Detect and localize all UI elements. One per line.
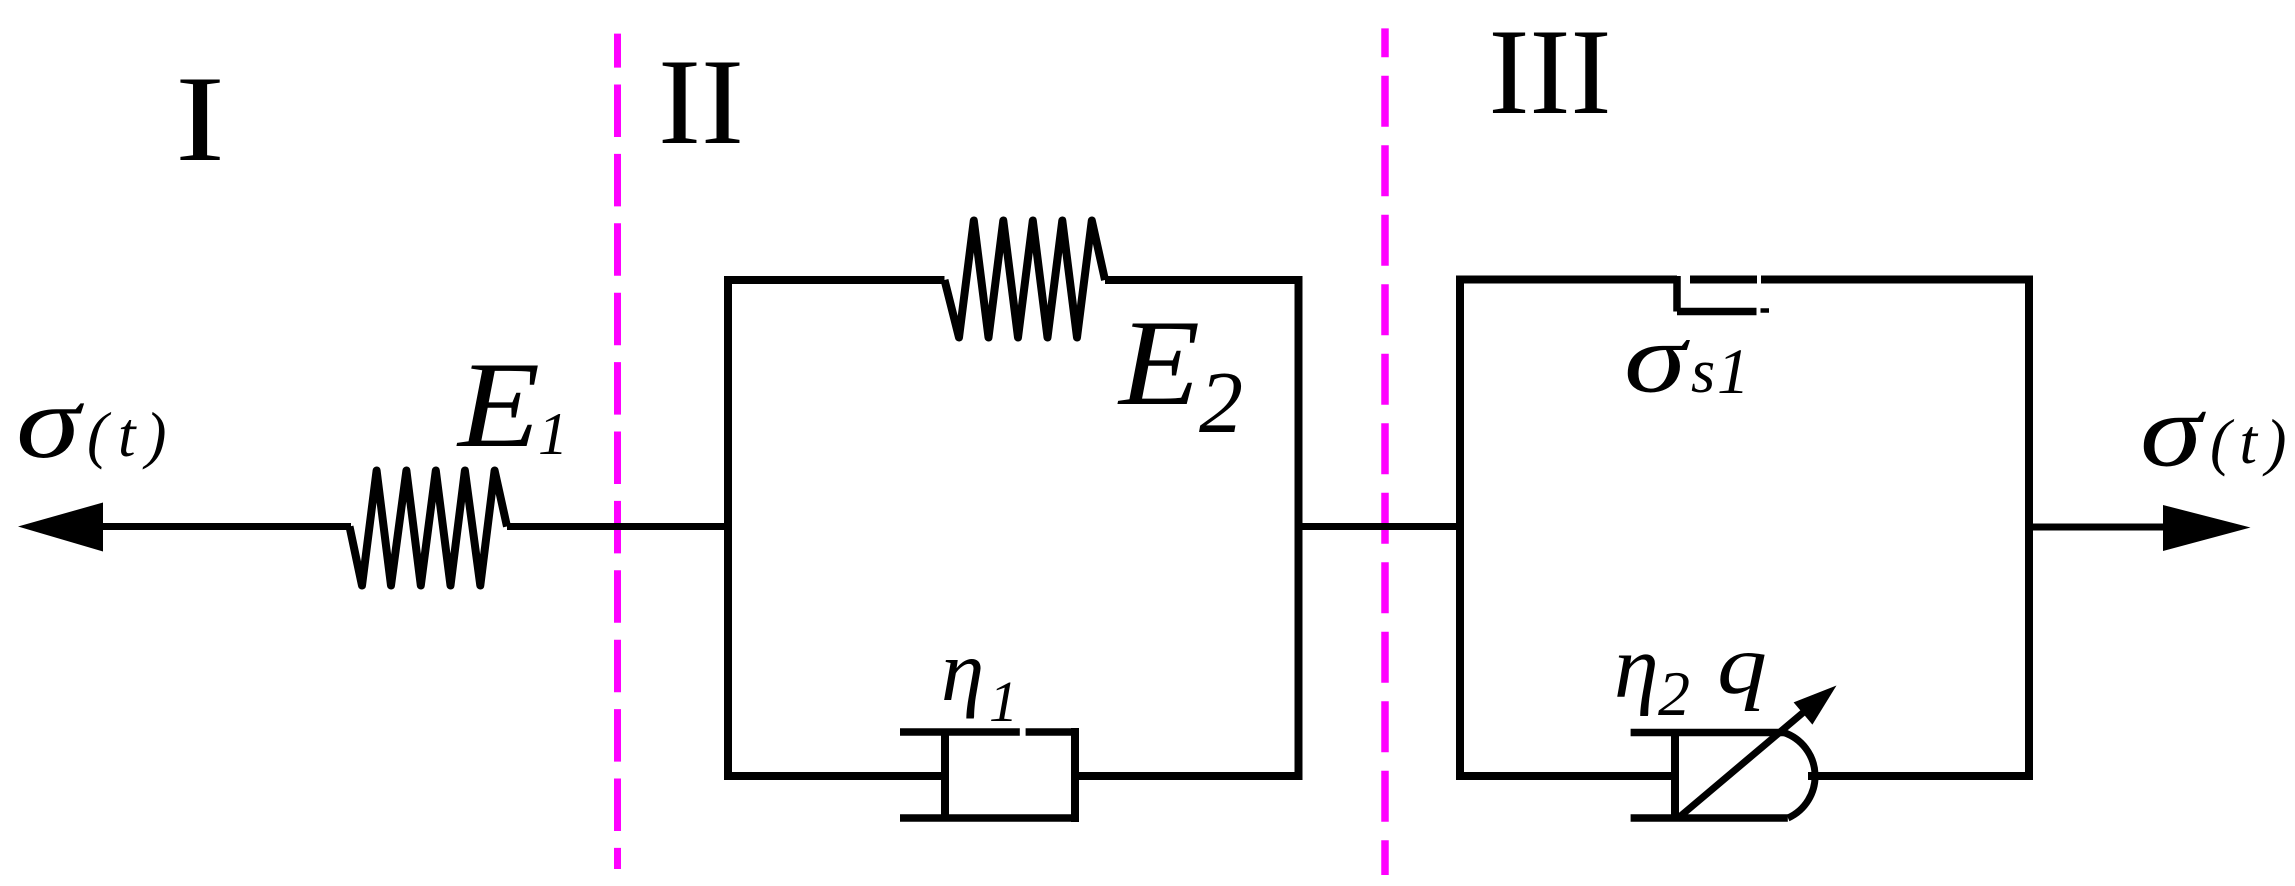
label E1 [456,336,568,473]
dashpot eta2 cylinder top wall [1631,729,1784,737]
slider sigma_s1 step [1673,276,1681,312]
region label III [1489,3,1612,140]
region label I [175,50,225,187]
svg-text:η: η [941,622,984,719]
svg-text:2: 2 [1658,658,1690,729]
svg-text:(t): (t) [2210,407,2295,477]
label E2 [1117,294,1243,452]
boundary line II/III (magenta dashed) [1381,28,1389,875]
box II top edge left segment [724,276,945,284]
spring E1 [350,471,508,586]
label eta2 q [1614,618,1767,729]
box II left edge [724,280,732,776]
spring E2 [945,221,1106,338]
variable-dashpot arrow q (diagonal) [1677,686,1837,820]
dashpot eta2 cylinder bottom wall [1631,814,1788,822]
box III bottom edge left segment [1456,772,1675,780]
svg-text:III: III [1489,3,1612,140]
box III right edge [2025,280,2033,777]
box III bottom edge right segment [1808,772,2033,780]
svg-text:II: II [658,33,744,170]
svg-text:s: s [1691,338,1715,406]
wire box III to right arrow [2029,524,2165,531]
dashpot eta1 cylinder right wall [1071,732,1079,818]
box II top edge right segment [1105,276,1303,284]
dashpot eta2 rounded cylinder end (arc) [1784,733,1815,819]
box III top edge right segment [1761,276,2033,284]
label eta1 [941,622,1018,734]
slider sigma_s1 lower plate [1677,311,1769,312]
box II bottom edge right segment [1074,772,1303,780]
box III top edge left segment (to slider step) [1456,276,1677,284]
svg-text:E: E [456,336,540,473]
label sigma(t) left [16,365,176,480]
svg-text:E: E [1117,294,1200,431]
label sigma_s1 [1624,303,1750,414]
label sigma(t) right [2140,374,2295,489]
svg-text:1: 1 [989,669,1018,734]
wire box II to box III [1299,523,1461,530]
svg-text:(t): (t) [87,400,176,470]
dashpot eta1 cylinder top wall [900,728,1074,736]
svg-text:σ: σ [16,365,85,480]
box III left edge [1456,280,1464,777]
dashpot eta1 cylinder bottom wall [900,814,1075,822]
svg-text:1: 1 [1717,336,1750,408]
stress arrow right [2163,505,2251,551]
region label II [658,33,744,170]
stress arrow left [18,503,351,552]
wire spring E1 to box II [507,523,728,530]
svg-text:1: 1 [538,401,568,467]
svg-text:η: η [1614,618,1659,717]
dashpot eta1 piston plate [941,734,949,816]
svg-text:σ: σ [1624,303,1691,414]
box II bottom edge left segment [724,772,945,780]
boundary line I/II (magenta dashed) [614,34,621,869]
svg-text:I: I [175,50,225,187]
svg-text:q: q [1717,618,1767,712]
slider sigma_s1 upper plate [1690,276,1757,284]
svg-text:2: 2 [1199,355,1243,452]
dashpot eta2 piston plate [1671,732,1679,818]
box II right edge [1295,280,1303,776]
svg-text:σ: σ [2140,374,2206,489]
